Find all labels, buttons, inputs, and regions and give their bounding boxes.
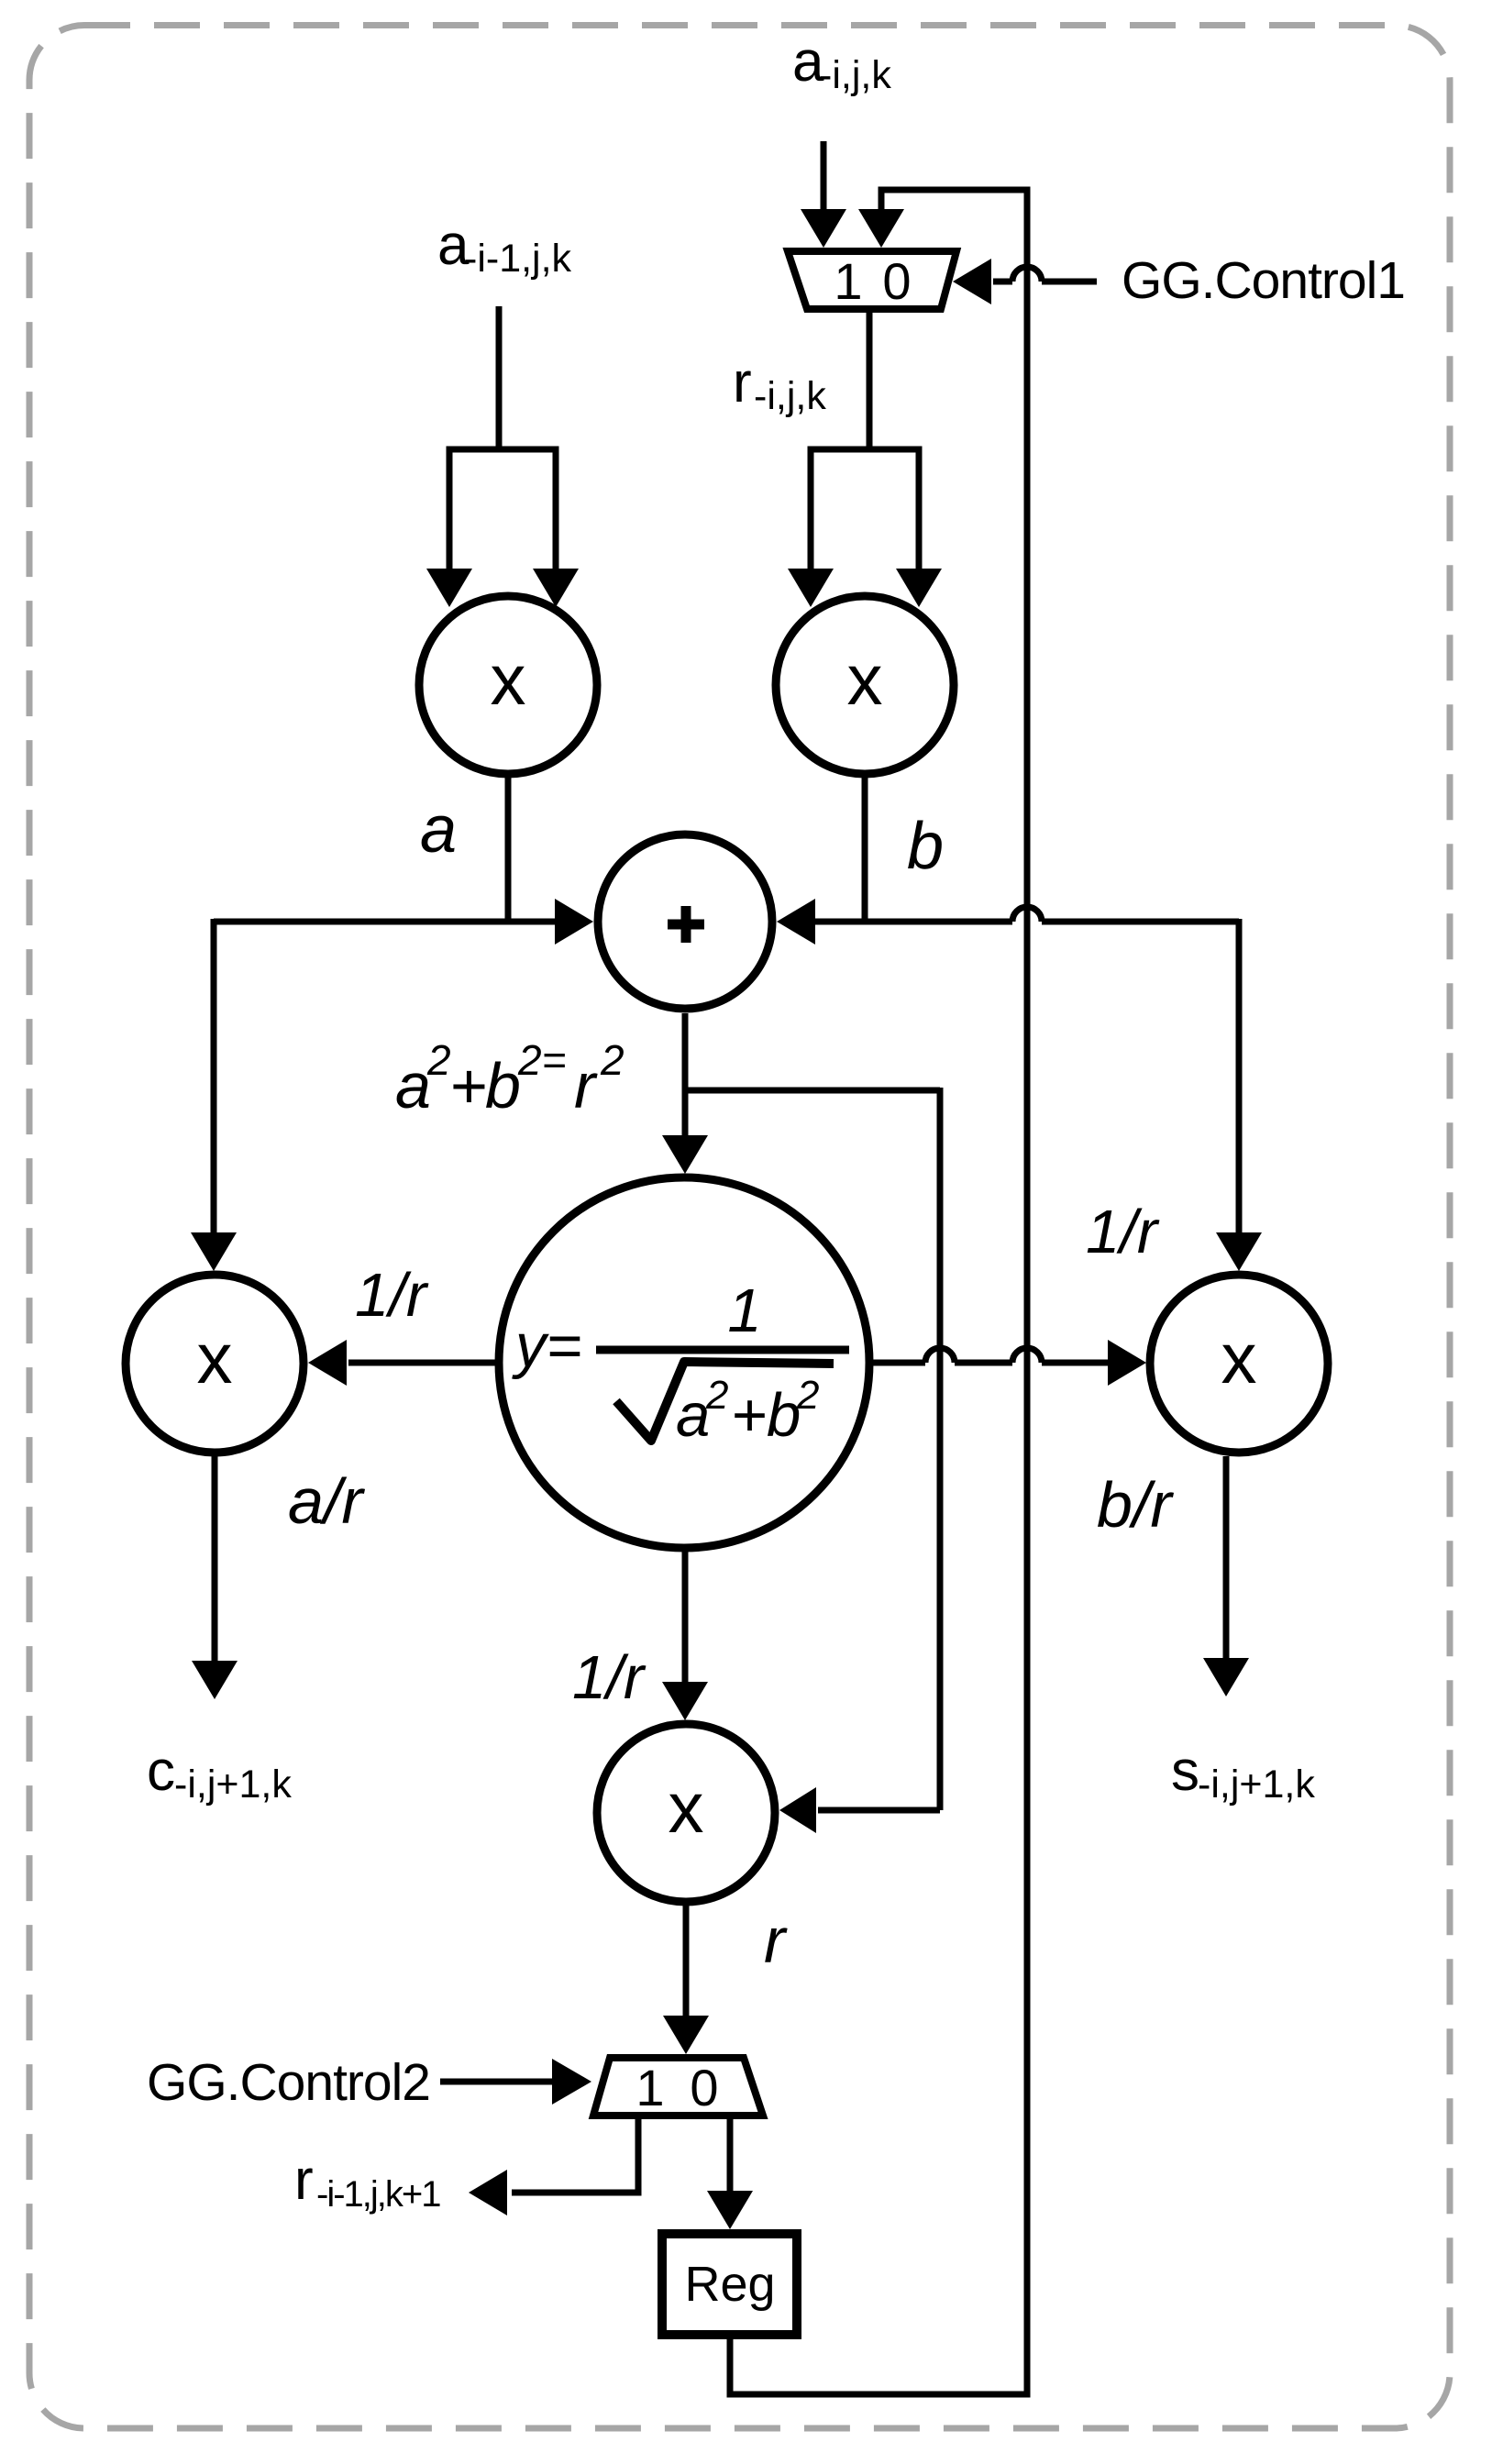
- svg-text:r: r: [764, 1905, 788, 1976]
- svg-text:+: +: [731, 1381, 767, 1450]
- svg-text:1: 1: [727, 1276, 761, 1345]
- svg-text:a: a: [676, 1381, 710, 1450]
- svg-text:2: 2: [600, 1036, 624, 1084]
- multiplier M1: [419, 596, 597, 774]
- label a_-i,j,k: [792, 30, 891, 97]
- svg-text:x: x: [197, 1318, 233, 1398]
- wire MUX2 output 0 into Reg: [707, 2116, 753, 2229]
- wire divider bottom output into M5: [662, 1552, 708, 1720]
- svg-text:y=: y=: [512, 1311, 582, 1380]
- demux MUX2: [593, 2058, 763, 2116]
- svg-text:1/r: 1/r: [355, 1261, 429, 1330]
- svg-text:GG.Control2: GG.Control2: [147, 2053, 430, 2112]
- divider/inverse-sqrt unit: [499, 1177, 869, 1548]
- adder: [598, 834, 772, 1009]
- wire GG.Control2 into MUX2: [440, 2059, 591, 2105]
- svg-text:1/r: 1/r: [572, 1643, 647, 1712]
- svg-text:a: a: [420, 793, 457, 867]
- svg-text:r: r: [294, 2149, 314, 2212]
- multiplier M4: [1150, 1275, 1328, 1453]
- register Reg: [662, 2234, 797, 2335]
- svg-text:-i,j,k: -i,j,k: [754, 374, 826, 418]
- wire adder output into divider and branch to M5 second input: [662, 1013, 940, 1833]
- label a_-i-1,j,k: [437, 214, 572, 281]
- svg-text:b: b: [767, 1381, 801, 1450]
- svg-text:a: a: [395, 1050, 431, 1122]
- svg-text:x: x: [491, 639, 526, 720]
- label s_-i,j+1,k: [1171, 1740, 1315, 1807]
- svg-text:-i-1,j,k+1: -i-1,j,k+1: [316, 2174, 440, 2215]
- svg-text:-i,j+1,k: -i,j+1,k: [174, 1762, 292, 1807]
- svg-text:+: +: [449, 1050, 487, 1122]
- svg-text:s: s: [1171, 1740, 1199, 1803]
- multiplier M3: [126, 1275, 304, 1453]
- label a2+b2=r2: [395, 1036, 624, 1122]
- svg-text:1: 1: [635, 2059, 664, 2116]
- svg-text:a/r: a/r: [288, 1465, 365, 1537]
- label r_-i-1,j,k+1: [294, 2149, 440, 2215]
- svg-text:1: 1: [834, 252, 862, 310]
- multiplier M2: [776, 596, 954, 774]
- wire GG.Control1 into MUX1 (hop over feedback): [953, 259, 1097, 304]
- svg-text:r: r: [574, 1050, 598, 1122]
- svg-text:-i,j+1,k: -i,j+1,k: [1198, 1762, 1315, 1807]
- svg-text:2=: 2=: [517, 1036, 566, 1084]
- wire divider output 1/r to M3: [308, 1340, 495, 1386]
- svg-text:x: x: [847, 639, 883, 720]
- wire divider output 1/r to M4 (hops over branch and feedback): [873, 1340, 1146, 1386]
- svg-text:Reg: Reg: [684, 2257, 775, 2312]
- svg-text:b: b: [485, 1050, 521, 1122]
- wire M4 output: [1203, 1456, 1249, 1696]
- wire fanout of r into M2 two inputs: [788, 449, 942, 607]
- svg-text:2: 2: [796, 1373, 819, 1418]
- label r_-i,j,k: [733, 351, 826, 418]
- svg-text:-i-1,j,k: -i-1,j,k: [464, 237, 572, 281]
- multiplier M5: [597, 1724, 775, 1902]
- svg-text:b: b: [907, 810, 944, 883]
- svg-text:x: x: [669, 1767, 704, 1848]
- wire fanout into M1 two inputs: [426, 449, 579, 607]
- wire M1 output to adder and branch to M3: [191, 776, 593, 1271]
- svg-text:b/r: b/r: [1097, 1469, 1174, 1541]
- wire MUX1 output down: [867, 313, 873, 449]
- wire MUX2 output 1 to r_-i-1,j,k+1: [469, 2116, 638, 2215]
- label c_-i,j+1,k: [147, 1740, 292, 1807]
- wire feedback from Reg up to MUX1 input 0: [730, 190, 1027, 2394]
- mux MUX1: [788, 251, 956, 310]
- wire input a into MUX1: [801, 141, 846, 248]
- svg-text:r: r: [733, 351, 752, 414]
- svg-text:0: 0: [882, 252, 911, 310]
- wire M2 output to adder (hop over feedback) and branch to M4: [777, 776, 1262, 1271]
- svg-text:c: c: [147, 1740, 175, 1803]
- svg-text:1/r: 1/r: [1086, 1198, 1160, 1266]
- wire M5 output into MUX2: [663, 1906, 709, 2054]
- svg-text:GG.Control1: GG.Control1: [1122, 251, 1405, 310]
- wire input a_-i-1 down: [496, 306, 503, 449]
- svg-text:-i,j,k: -i,j,k: [819, 53, 891, 97]
- svg-text:0: 0: [690, 2059, 718, 2116]
- svg-text:2: 2: [426, 1036, 451, 1084]
- svg-text:x: x: [1221, 1318, 1257, 1398]
- wire M3 output: [192, 1456, 238, 1699]
- svg-text:2: 2: [705, 1373, 728, 1418]
